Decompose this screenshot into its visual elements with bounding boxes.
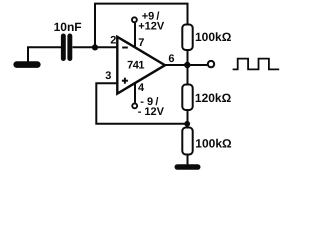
node C (divider junction dot) xyxy=(184,121,190,127)
plus sign (non-inverting input) xyxy=(122,80,128,82)
node A (junction dot at capacitor/pin2) xyxy=(92,44,98,50)
output terminal circle xyxy=(208,61,214,67)
wire: R1 bottom to R2 top through node xyxy=(187,49,189,86)
svg-text:6: 6 xyxy=(168,53,174,65)
svg-text:7: 7 xyxy=(138,37,144,49)
node B (output junction dot) xyxy=(184,62,190,68)
wire: capacitor to op-amp pin 2 xyxy=(73,46,118,48)
wire: R3 to ground xyxy=(187,154,189,165)
minus sign (inverting input) xyxy=(122,47,128,49)
svg-text:3: 3 xyxy=(105,70,111,82)
svg-text:2: 2 xyxy=(110,35,116,47)
ground (right) xyxy=(177,164,197,170)
terminal V- circle xyxy=(132,103,137,108)
wire: feedback from node A up over the top rail xyxy=(95,4,188,48)
svg-text:- 12V: - 12V xyxy=(138,106,165,118)
svg-text:4: 4 xyxy=(138,82,145,94)
wire: R2 bottom to R3 top through junction xyxy=(187,109,189,129)
svg-text:100kΩ: 100kΩ xyxy=(195,30,232,44)
svg-text:100kΩ: 100kΩ xyxy=(195,137,232,151)
resistor R3 100k xyxy=(182,128,192,155)
resistor R2 120k xyxy=(182,85,192,111)
svg-text:+12V: +12V xyxy=(138,20,165,32)
svg-text:10nF: 10nF xyxy=(54,20,82,34)
capacitor C1 10nF xyxy=(61,34,66,62)
svg-text:741: 741 xyxy=(127,59,144,71)
pin 7 wire xyxy=(134,23,136,47)
resistor R1 100k xyxy=(182,25,192,51)
wire: pin3 feedback loop to divider junction xyxy=(96,83,187,124)
wire: ground to capacitor left plate xyxy=(28,47,61,62)
wire: output from tip to terminal xyxy=(164,64,207,66)
square wave output symbol xyxy=(233,59,280,70)
ground (left) xyxy=(17,61,38,68)
svg-text:120kΩ: 120kΩ xyxy=(195,91,232,105)
op-amp U1 741 triangle xyxy=(117,37,165,94)
terminal V+ circle xyxy=(132,17,137,22)
pin 4 wire xyxy=(134,84,136,103)
